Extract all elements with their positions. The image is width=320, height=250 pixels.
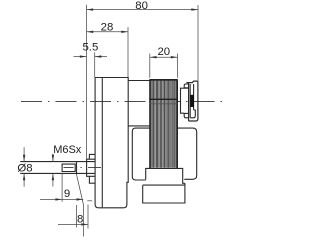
ext line 9 left — [61, 174, 63, 202]
bracket clip bottom tab — [184, 113, 188, 117]
dim 20 line — [150, 56, 178, 58]
svg-text:80: 80 — [135, 0, 148, 12]
stator stack fill — [151, 80, 177, 167]
centerline main horizontal — [21, 100, 222, 102]
arrow dia8 top — [23, 155, 25, 162]
hub collar — [87, 159, 95, 176]
ext line x76.6 — [76, 205, 78, 228]
arrowheads — [23, 8, 198, 225]
shaft thread M6 section — [62, 164, 75, 171]
dia8 arrows lines — [23, 147, 25, 187]
dim 28 line — [87, 31, 129, 33]
arrow 9 at diagonal — [77, 198, 84, 200]
svg-text:5.5: 5.5 — [82, 42, 98, 54]
motor mounting plate top edge — [128, 80, 150, 82]
bracket clip top tab — [184, 84, 188, 88]
coil bobbin left flange — [132, 128, 150, 180]
plate lower edge line — [128, 125, 150, 127]
ext line 5.5 right — [94, 52, 96, 77]
stator stack outline — [150, 80, 177, 168]
svg-text:9: 9 — [64, 188, 70, 200]
thread end line — [76, 162, 78, 173]
rotor hub — [181, 88, 189, 113]
arrow 9 at 62 — [55, 198, 62, 200]
arrow 80 left — [87, 8, 94, 10]
gearbox housing — [95, 78, 128, 208]
rotor bore lines — [149, 98, 178, 100]
ext line x88 — [87, 205, 89, 229]
arrow 5.5 right — [95, 55, 102, 57]
arrow 80 right — [191, 8, 198, 10]
dim 8 line — [58, 223, 88, 225]
ext line 28 right — [127, 27, 129, 78]
arrow 5.5 left — [80, 55, 87, 57]
M6 arrows lines — [52, 154, 54, 187]
hub top step — [89, 154, 95, 159]
hub bottom step — [89, 176, 95, 183]
gearbox joint line — [101, 78, 103, 207]
output shaft — [20, 162, 95, 174]
svg-text:8: 8 — [77, 213, 83, 225]
coil bobbin side flange — [178, 128, 197, 179]
shaft centerline — [64, 167, 102, 169]
ext lines 20 — [150, 54, 178, 78]
bearing bracket — [186, 81, 198, 121]
leader vertical — [82, 205, 84, 237]
coil winding lower block — [143, 183, 185, 203]
arrow M6 bottom — [52, 174, 54, 181]
svg-text:20: 20 — [157, 46, 170, 58]
dim 5.5 line — [74, 56, 108, 58]
dims — [24, 5, 198, 237]
svg-text:Ø8: Ø8 — [17, 163, 32, 175]
arrow 28 left — [87, 31, 94, 33]
arrow 20 right — [171, 56, 178, 58]
ext line left x86.5 — [86, 5, 88, 159]
dim texts — [17, 0, 170, 225]
svg-text:M6Sx: M6Sx — [53, 144, 82, 156]
dim 80 line — [87, 9, 199, 11]
stator laminations hatching — [151, 81, 176, 168]
leader diagonal — [76, 174, 83, 205]
dim 9 right stub — [87, 200, 92, 202]
dim 9 line — [40, 198, 83, 200]
arrow dia8 bottom — [23, 174, 25, 181]
ext line right x198 — [197, 5, 199, 83]
arrow 20 left — [150, 56, 157, 58]
svg-text:28: 28 — [101, 22, 114, 34]
arrow 8 at 88 — [81, 223, 88, 225]
coil bobbin flange upper — [146, 168, 185, 183]
motor shaft end black — [190, 95, 194, 107]
bearing inner lines — [190, 84, 195, 118]
arrow M6 top — [52, 155, 54, 162]
arrow 28 right — [121, 31, 128, 33]
